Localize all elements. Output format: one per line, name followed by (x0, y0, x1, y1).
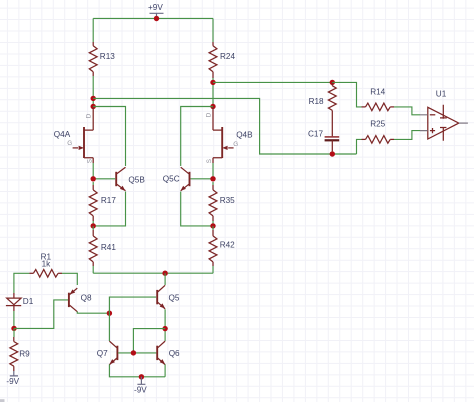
junction base rail (131, 350, 136, 355)
power +9V symbol (150, 13, 164, 18)
resistor R25 (362, 138, 366, 140)
svg-text:-9V: -9V (6, 377, 19, 386)
svg-text:R35: R35 (220, 196, 235, 205)
wire node to Q8 base (14, 300, 68, 329)
svg-text:Q5C: Q5C (163, 175, 180, 184)
wire node to R9 (13, 328, 15, 337)
svg-text:R42: R42 (220, 240, 235, 249)
junction Q5C base (210, 176, 215, 181)
wire Q5 collector to tail rail (164, 273, 166, 285)
svg-text:R13: R13 (100, 52, 115, 61)
wire R13 to node (92, 76, 94, 107)
wire D1 to node (13, 311, 15, 328)
junction R13/Q4A drain (91, 104, 96, 109)
svg-text:R24: R24 (220, 52, 235, 61)
svg-text:Q7: Q7 (97, 349, 108, 358)
transistor Q5B (115, 172, 117, 186)
wire +9V rail to R13 (92, 18, 94, 42)
junction on +9V rail (154, 16, 159, 21)
wire C17 to net B (331, 151, 333, 154)
svg-text:R9: R9 (19, 350, 30, 359)
transistor Q5C (189, 172, 191, 186)
wire Q4A source to base node (92, 163, 94, 179)
junction Q8 collector/Q5 base (107, 311, 112, 316)
resistor R42 (212, 230, 214, 236)
wire Q6 emitter to -9V rail (164, 364, 166, 376)
wire Q4A drain node to C17 bottom (net B) (93, 98, 356, 154)
svg-text:Q5: Q5 (169, 293, 180, 302)
wire link to base rail (133, 329, 165, 353)
svg-text:U1: U1 (436, 89, 447, 98)
junction R17/R41 (91, 223, 96, 228)
wire R1 to Q8 emitter (62, 273, 77, 285)
svg-text:D: D (205, 112, 212, 117)
junction Q5 emitter/Q6 base link (162, 326, 167, 331)
wire R14 to op-amp - (394, 107, 420, 115)
wire Q8 collector to node (77, 312, 109, 314)
wire Q7/Q6 base rail (118, 352, 156, 354)
jfet Q4A (83, 127, 85, 158)
wire R17 to node (92, 182, 94, 226)
power -9V left (10, 371, 18, 376)
junction Q5B base (91, 176, 96, 181)
wire net B to R25 (357, 139, 362, 154)
svg-text:Q6: Q6 (169, 349, 180, 358)
wire +9V rail to R24 (212, 18, 214, 42)
transistor Q7 (116, 346, 118, 360)
svg-text:-9V: -9V (134, 386, 147, 395)
resistor R41 (92, 230, 94, 236)
svg-text:1k: 1k (42, 260, 52, 269)
svg-text:+9V: +9V (148, 3, 163, 12)
wire net A R24 to R18/R14 (213, 81, 332, 83)
svg-text:R17: R17 (101, 196, 116, 205)
svg-text:S: S (206, 159, 213, 163)
wire U1 output (459, 122, 468, 124)
wire Q5B base (93, 178, 115, 180)
op-amp U1 (428, 107, 459, 139)
svg-text:Q8: Q8 (81, 293, 92, 302)
svg-text:G: G (67, 140, 72, 147)
svg-text:C17: C17 (308, 129, 323, 138)
wire Q7 collector (108, 313, 110, 341)
svg-text:Q4B: Q4B (236, 131, 253, 140)
capacitor C17 (325, 136, 340, 138)
transistor Q6 (156, 346, 158, 360)
jfet Q4B (221, 127, 223, 158)
resistor R13 (92, 42, 94, 46)
transistor Q5 (156, 290, 158, 304)
wire Q5C base (191, 178, 214, 180)
svg-text:R14: R14 (370, 88, 385, 97)
resistor R14 (362, 106, 366, 108)
svg-text:R25: R25 (370, 119, 385, 128)
wire D1 to R1 (14, 273, 30, 293)
svg-text:G: G (233, 141, 238, 148)
corner fragment (0, 399, 5, 402)
junction net A / R18 (330, 80, 335, 85)
junction R24/Q4B drain (210, 104, 215, 109)
junction R24/net A (210, 80, 215, 85)
wire net A to R14 (332, 82, 361, 107)
junction R13/long wire (91, 96, 96, 101)
junction -9V rail (139, 374, 144, 379)
wire R25 to op-amp + (394, 131, 420, 140)
wire Q5C emitter to R35 bottom node (181, 192, 213, 226)
junction tail rail/Q5 collector (162, 271, 167, 276)
wire Q5 base (109, 297, 156, 313)
resistor R24 (212, 42, 214, 46)
wire R41 to rail (92, 226, 94, 273)
resistor R35 (212, 185, 214, 190)
resistor R18 (331, 82, 333, 85)
resistor R1 1k (29, 272, 33, 274)
wire Q5 emitter to Q6 collector (164, 309, 166, 341)
svg-text:R41: R41 (101, 243, 116, 252)
wire Q7 emitter to -9V rail (109, 364, 165, 376)
power -9V middle (137, 377, 145, 385)
junction R35/R42 (210, 223, 215, 228)
wire R35 to node (212, 182, 214, 226)
wire R42 to rail (212, 226, 214, 273)
svg-text:D1: D1 (23, 297, 34, 306)
junction C17/net B (330, 151, 335, 156)
wire tail rail (93, 272, 213, 274)
wire node to Q5B collector (93, 107, 125, 167)
wire top +9V rail (93, 17, 213, 19)
svg-text:D: D (85, 113, 92, 118)
diode D1 (7, 298, 21, 305)
resistor R17 (92, 185, 94, 190)
resistor R9 (13, 337, 15, 342)
wire R24 to node A (212, 78, 214, 107)
transistor Q8 (68, 293, 70, 307)
svg-text:Q5B: Q5B (128, 176, 145, 185)
svg-text:Q4A: Q4A (54, 130, 71, 139)
svg-text:R18: R18 (309, 97, 324, 106)
wire Q4B source to base node (212, 163, 214, 179)
wire node to Q5C collector (181, 107, 213, 167)
svg-text:S: S (86, 159, 93, 163)
wire Q5B emitter to R17 bottom node (93, 192, 125, 226)
junction D1/R9 (11, 326, 16, 331)
